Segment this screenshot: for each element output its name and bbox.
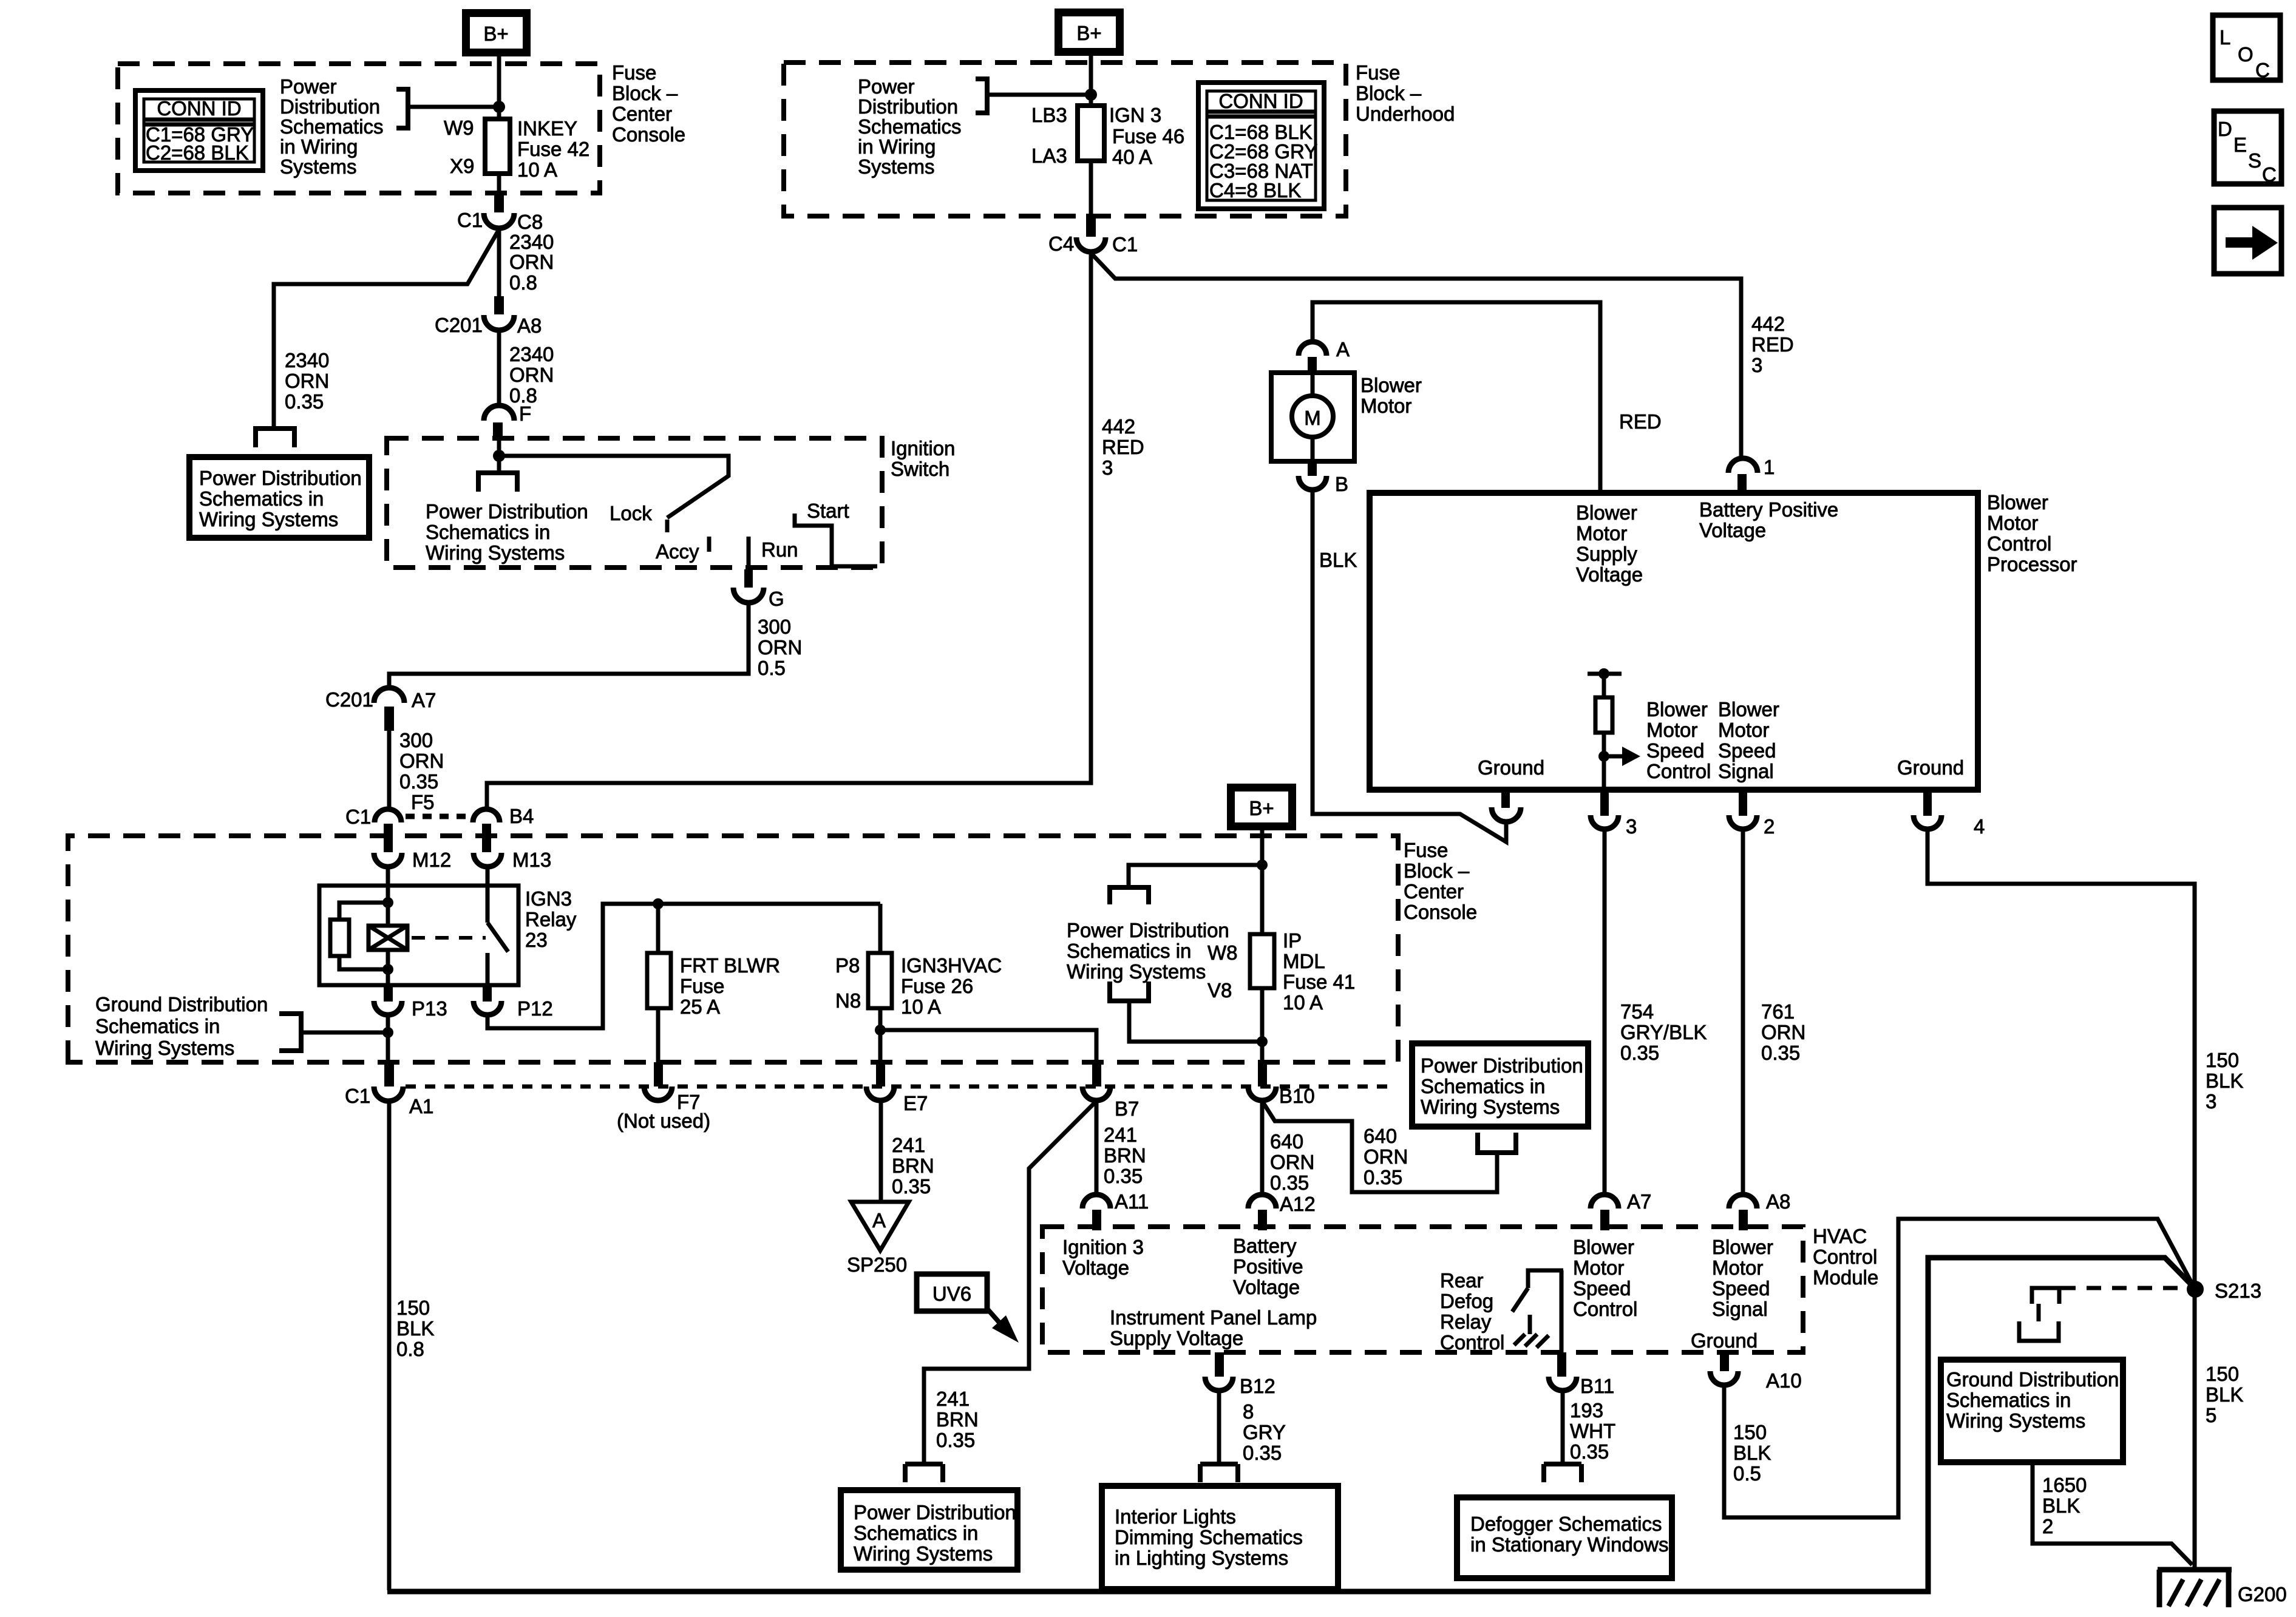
wire B+ to fuse 42 <box>497 56 501 119</box>
svg-text:S: S <box>2248 149 2261 172</box>
svg-text:ORN: ORN <box>1270 1151 1314 1173</box>
wire 640 ORN 0.35 branch (B10 to power distribution note) <box>1262 1101 1497 1192</box>
svg-text:3: 3 <box>1102 456 1113 479</box>
processor pin 3 <box>1600 790 1609 816</box>
svg-text:IGN 3: IGN 3 <box>1109 104 1161 126</box>
svg-text:2: 2 <box>1764 815 1775 838</box>
svg-text:300: 300 <box>758 615 791 638</box>
svg-text:N8: N8 <box>835 989 861 1012</box>
svg-text:in Stationary Windows: in Stationary Windows <box>1470 1533 1668 1556</box>
svg-text:BLK: BLK <box>1733 1442 1771 1464</box>
svg-text:4: 4 <box>1974 815 1985 838</box>
svg-text:Defogger Schematics: Defogger Schematics <box>1470 1513 1662 1535</box>
connector P13 <box>384 984 393 1002</box>
wire pin 4 to S213 (150 BLK 3) <box>1927 829 2195 1568</box>
node on IGN3 feed <box>1085 89 1097 101</box>
note box interior lights dimming <box>1102 1486 1338 1589</box>
svg-text:Schematics: Schematics <box>858 115 962 138</box>
svg-text:0.8: 0.8 <box>509 271 537 294</box>
svg-text:Wiring Systems: Wiring Systems <box>1946 1409 2085 1432</box>
svg-text:GRY: GRY <box>1243 1421 1286 1443</box>
svg-text:0.35: 0.35 <box>1243 1442 1282 1464</box>
svg-text:Control: Control <box>1813 1246 1877 1268</box>
relay actuation dashed link <box>412 936 486 940</box>
svg-text:Motor: Motor <box>1718 719 1769 741</box>
pin tick at C4/C1 <box>1086 214 1096 237</box>
svg-text:Signal: Signal <box>1712 1298 1768 1320</box>
wire defog to B11 <box>1560 1270 1564 1354</box>
svg-text:640: 640 <box>1364 1125 1397 1147</box>
svg-text:0.35: 0.35 <box>1761 1042 1800 1064</box>
wire 193 WHT 0.35 <box>1561 1391 1565 1464</box>
svg-text:0.35: 0.35 <box>285 390 324 413</box>
svg-text:Ground: Ground <box>1691 1329 1758 1352</box>
node ignition feed <box>493 450 505 462</box>
connector B7 <box>1092 1065 1101 1086</box>
svg-text:WHT: WHT <box>1570 1420 1615 1442</box>
connector A7 HVAC <box>1591 1195 1618 1209</box>
svg-text:Power Distribution: Power Distribution <box>1067 919 1229 941</box>
svg-text:GRY/BLK: GRY/BLK <box>1620 1021 1707 1043</box>
ground bus wire to S213 <box>387 1258 2193 1592</box>
svg-text:Console: Console <box>612 123 685 146</box>
svg-text:10 A: 10 A <box>901 995 941 1018</box>
relay switch contact <box>486 886 490 923</box>
svg-text:Rear: Rear <box>1440 1269 1484 1292</box>
svg-text:241: 241 <box>892 1134 925 1156</box>
svg-text:Motor: Motor <box>1646 719 1697 741</box>
connector B11 <box>1557 1352 1566 1377</box>
svg-text:Schematics in: Schematics in <box>199 487 324 510</box>
svg-text:0.35: 0.35 <box>1620 1042 1659 1064</box>
svg-text:FRT BLWR: FRT BLWR <box>680 954 780 977</box>
svg-text:A12: A12 <box>1280 1193 1316 1215</box>
connector pin 1 of processor <box>1728 458 1758 473</box>
off-page terminator bracket <box>256 429 294 447</box>
svg-text:ORN: ORN <box>509 364 554 386</box>
svg-text:Lock: Lock <box>610 502 652 524</box>
connector C1/C8 pin tick <box>494 194 504 212</box>
svg-text:Control: Control <box>1646 760 1711 782</box>
wire 754 GRY/BLK 0.35 (pin 3 to A7) <box>1603 829 1607 1194</box>
svg-text:Blower: Blower <box>1360 374 1422 396</box>
connector E7 <box>876 1062 885 1086</box>
svg-text:Supply Voltage: Supply Voltage <box>1110 1327 1243 1349</box>
connector M13 <box>474 853 501 867</box>
connector A12 <box>1248 1195 1276 1209</box>
svg-text:IGN3HVAC: IGN3HVAC <box>901 954 1002 977</box>
pin tick below F <box>493 422 503 441</box>
svg-text:0.35: 0.35 <box>399 770 438 793</box>
connector F (ignition switch) <box>484 405 514 421</box>
svg-text:Wiring Systems: Wiring Systems <box>1421 1096 1560 1118</box>
svg-text:(Not used): (Not used) <box>617 1110 710 1132</box>
svg-text:RED: RED <box>1751 333 1794 356</box>
svg-text:Motor: Motor <box>1576 522 1627 544</box>
svg-text:0.35: 0.35 <box>1270 1171 1309 1194</box>
svg-text:BLK: BLK <box>2206 1070 2243 1092</box>
LOC legend box <box>2213 15 2280 80</box>
connector A blower motor <box>1299 342 1326 356</box>
svg-text:SP250: SP250 <box>847 1253 907 1276</box>
note box defogger schematics <box>1457 1497 1672 1578</box>
svg-text:IP: IP <box>1283 929 1302 952</box>
svg-text:Motor: Motor <box>1712 1256 1763 1279</box>
connector B blower motor <box>1308 460 1317 476</box>
svg-text:Instrument Panel Lamp: Instrument Panel Lamp <box>1110 1306 1317 1329</box>
svg-text:Distribution: Distribution <box>858 95 958 118</box>
svg-text:RED: RED <box>1619 410 1662 433</box>
ignition switch dashed box <box>387 438 882 568</box>
ignition switch feed wire and blade <box>499 456 729 518</box>
connector G <box>733 588 764 603</box>
CONN ID table (center console) <box>135 90 263 171</box>
svg-text:5: 5 <box>2206 1404 2216 1426</box>
splice S213 <box>2187 1281 2204 1298</box>
svg-text:Fuse: Fuse <box>680 975 724 997</box>
wire 442 RED 3 branch to blower motor control processor <box>1092 254 1741 456</box>
Lock contact <box>665 520 670 532</box>
svg-text:Speed: Speed <box>1646 739 1704 762</box>
fuse block underhood dashed box <box>784 63 1346 216</box>
svg-text:ORN: ORN <box>1364 1145 1408 1168</box>
svg-text:Ground: Ground <box>1897 756 1964 779</box>
svg-text:B12: B12 <box>1240 1375 1275 1397</box>
svg-text:S213: S213 <box>2215 1280 2261 1302</box>
svg-text:ORN: ORN <box>399 750 444 772</box>
svg-text:B+: B+ <box>1076 22 1101 44</box>
svg-text:241: 241 <box>1104 1124 1137 1146</box>
connector C1/A1 <box>384 1062 394 1086</box>
svg-text:Battery: Battery <box>1233 1235 1297 1257</box>
svg-text:2340: 2340 <box>509 231 554 253</box>
wire fuse 41 to B10 <box>1260 988 1265 1063</box>
svg-text:D: D <box>2218 118 2232 140</box>
svg-text:3: 3 <box>1751 354 1762 376</box>
svg-text:150: 150 <box>1733 1421 1767 1443</box>
svg-text:Control: Control <box>1987 532 2051 555</box>
svg-text:Wiring Systems: Wiring Systems <box>199 508 338 531</box>
bracket to ground distribution note <box>279 1014 301 1051</box>
svg-text:10 A: 10 A <box>1283 991 1323 1014</box>
svg-text:A8: A8 <box>1766 1190 1790 1213</box>
bracket above power distribution box <box>905 1464 943 1482</box>
svg-text:C1: C1 <box>345 1085 370 1107</box>
relay coil symbol <box>369 926 407 950</box>
svg-text:Schematics in: Schematics in <box>854 1522 978 1544</box>
svg-text:C1: C1 <box>457 209 483 231</box>
svg-text:754: 754 <box>1620 1000 1654 1023</box>
svg-text:Start: Start <box>807 500 849 522</box>
UV6 arrow <box>987 1309 1000 1324</box>
svg-text:Relay: Relay <box>1440 1310 1492 1333</box>
svg-text:Run: Run <box>761 538 798 561</box>
dashed branch S213 to ground distribution note <box>2061 1286 2183 1290</box>
svg-text:0.35: 0.35 <box>892 1175 931 1198</box>
wire fuse 42 to C1/C8 <box>497 174 501 195</box>
bracket above defogger box <box>1544 1464 1581 1482</box>
svg-text:BLK: BLK <box>396 1317 434 1340</box>
connector M12 <box>374 853 402 867</box>
svg-text:A10: A10 <box>1766 1369 1802 1392</box>
connector A10 <box>1720 1352 1729 1371</box>
svg-text:8: 8 <box>1243 1400 1254 1423</box>
forward arrow legend box <box>2214 208 2281 274</box>
svg-text:Fuse: Fuse <box>1404 839 1448 861</box>
svg-text:A8: A8 <box>517 314 542 337</box>
svg-text:Battery Positive: Battery Positive <box>1699 498 1838 521</box>
rear defog relay contact <box>1528 1270 1563 1288</box>
svg-text:ORN: ORN <box>509 251 554 273</box>
wire 241 BRN 0.35 (E7 to SP250) <box>879 1100 883 1202</box>
svg-text:Wiring Systems: Wiring Systems <box>1067 960 1206 983</box>
connector C201/A8 pin tick <box>494 296 504 314</box>
svg-text:C1: C1 <box>1112 233 1138 256</box>
svg-text:Distribution: Distribution <box>280 95 380 118</box>
svg-text:0.35: 0.35 <box>1364 1166 1402 1188</box>
svg-text:Systems: Systems <box>858 155 935 178</box>
svg-text:F5: F5 <box>411 791 435 813</box>
Run contact <box>747 537 751 569</box>
svg-text:2340: 2340 <box>509 343 554 365</box>
svg-text:C: C <box>2255 59 2270 81</box>
relay coil branch <box>386 886 390 926</box>
svg-text:UV6: UV6 <box>932 1283 971 1305</box>
svg-text:Blower: Blower <box>1576 501 1637 524</box>
svg-text:B4: B4 <box>509 805 534 827</box>
pin tick at G <box>744 569 753 588</box>
svg-text:A7: A7 <box>1627 1190 1651 1213</box>
svg-text:241: 241 <box>936 1388 970 1410</box>
svg-text:Speed: Speed <box>1573 1277 1631 1300</box>
svg-text:A: A <box>1336 338 1350 361</box>
svg-text:Defog: Defog <box>1440 1290 1493 1312</box>
svg-text:Voltage: Voltage <box>1576 563 1643 586</box>
connector P12 <box>483 984 492 1002</box>
svg-text:0.35: 0.35 <box>1104 1165 1143 1187</box>
svg-text:Schematics: Schematics <box>280 115 384 138</box>
svg-text:A11: A11 <box>1115 1190 1149 1213</box>
svg-text:Underhood: Underhood <box>1356 103 1455 125</box>
svg-text:Systems: Systems <box>280 155 357 178</box>
svg-text:Positive: Positive <box>1233 1255 1303 1278</box>
svg-text:B: B <box>1335 473 1348 495</box>
IGN3 relay 23 box <box>319 886 518 985</box>
svg-text:C201: C201 <box>325 688 373 711</box>
fuse 46 IGN 3 <box>1078 106 1104 161</box>
bracket to note <box>396 89 408 128</box>
svg-text:2340: 2340 <box>285 349 329 371</box>
svg-text:Ground: Ground <box>1478 756 1544 779</box>
svg-text:Power Distribution: Power Distribution <box>199 467 362 489</box>
B+ terminal (underhood) <box>1059 13 1120 52</box>
svg-text:Schematics in: Schematics in <box>1421 1075 1545 1097</box>
svg-text:0.35: 0.35 <box>1570 1440 1609 1463</box>
svg-text:150: 150 <box>2206 1049 2239 1071</box>
big fuse block center console dashed box <box>68 836 1398 1062</box>
svg-text:0.5: 0.5 <box>1733 1462 1761 1485</box>
blower motor supply loop wire <box>1313 302 1600 493</box>
wire 2340 ORN 0.8 (A8 to F) <box>497 330 501 405</box>
B+ terminal (top left, fuse block center console) <box>466 13 527 53</box>
svg-text:Dimming Schematics: Dimming Schematics <box>1115 1526 1303 1548</box>
wire fuse 46 to C4/C1 <box>1089 161 1093 215</box>
connector C1/F5 <box>375 809 401 822</box>
svg-text:Wiring Systems: Wiring Systems <box>426 541 565 564</box>
splice SP250 <box>851 1202 909 1250</box>
svg-text:G200: G200 <box>2238 1583 2287 1605</box>
connector C4/C1 <box>1076 237 1106 252</box>
svg-text:Schematics in: Schematics in <box>95 1015 220 1037</box>
processor pin 4 <box>1923 790 1932 816</box>
svg-text:X9: X9 <box>450 155 474 177</box>
branch wire to power distribution note box <box>274 229 499 427</box>
svg-text:C1: C1 <box>345 805 371 828</box>
svg-text:25 A: 25 A <box>680 995 720 1018</box>
bracket to note <box>976 79 987 113</box>
svg-text:BRN: BRN <box>936 1408 979 1431</box>
svg-text:INKEY: INKEY <box>517 117 577 140</box>
note box power distribution schematics (bottom) <box>841 1490 1017 1570</box>
svg-text:CONN ID: CONN ID <box>1218 90 1303 112</box>
svg-text:Supply: Supply <box>1576 543 1637 565</box>
svg-text:2: 2 <box>2042 1515 2053 1537</box>
svg-text:Ground Distribution: Ground Distribution <box>95 993 268 1015</box>
svg-text:ORN: ORN <box>758 636 802 659</box>
blower motor control processor box <box>1370 493 1978 790</box>
svg-text:M: M <box>1304 407 1321 429</box>
svg-text:10 A: 10 A <box>517 158 557 181</box>
connector B12 <box>1215 1352 1224 1377</box>
svg-text:Accy: Accy <box>656 540 699 563</box>
svg-text:Blower: Blower <box>1718 698 1779 720</box>
svg-text:W8: W8 <box>1207 941 1238 964</box>
svg-text:IGN3: IGN3 <box>525 887 572 910</box>
wire B+ to IP MDL fuse <box>1260 830 1265 934</box>
CONN ID table (underhood) <box>1198 83 1324 209</box>
pin tick below A7 <box>384 707 394 731</box>
svg-text:Fuse: Fuse <box>1356 61 1400 84</box>
svg-text:A: A <box>872 1209 886 1232</box>
wire 150 BLK 0.5 (A10 ground to S213) <box>1724 1219 2193 1517</box>
blower motor box <box>1271 373 1354 461</box>
svg-text:LA3: LA3 <box>1031 144 1067 167</box>
svg-text:Motor: Motor <box>1573 1256 1624 1279</box>
svg-text:Power Distribution: Power Distribution <box>1421 1054 1583 1077</box>
svg-text:G: G <box>769 588 784 610</box>
svg-text:Voltage: Voltage <box>1062 1256 1129 1279</box>
svg-text:Center: Center <box>1404 880 1464 903</box>
svg-text:C: C <box>2262 163 2277 186</box>
svg-text:23: 23 <box>525 929 548 951</box>
svg-text:Speed: Speed <box>1712 1277 1770 1300</box>
svg-text:Control: Control <box>1440 1331 1504 1354</box>
HVAC control module dashed box <box>1042 1227 1803 1352</box>
svg-text:Module: Module <box>1813 1266 1878 1289</box>
svg-text:150: 150 <box>396 1297 430 1319</box>
wire 150 BLK 0.8 (A1 to ground bus) <box>387 1100 392 1590</box>
svg-text:Fuse 42: Fuse 42 <box>517 138 589 160</box>
svg-text:HVAC: HVAC <box>1813 1225 1867 1247</box>
svg-text:Motor: Motor <box>1987 512 2038 534</box>
svg-text:1650: 1650 <box>2042 1474 2087 1496</box>
svg-text:Fuse: Fuse <box>612 61 656 84</box>
svg-text:761: 761 <box>1761 1000 1795 1023</box>
bracket above interior lights box <box>1200 1464 1238 1482</box>
svg-text:Relay: Relay <box>525 908 577 931</box>
svg-text:Schematics in: Schematics in <box>1067 940 1191 962</box>
svg-text:Center: Center <box>612 103 672 125</box>
svg-text:C4: C4 <box>1048 232 1074 255</box>
internal speed control resistor <box>1588 672 1622 676</box>
wire 241 BRN 0.35 branch (B7 to power distribution) <box>924 1101 1096 1464</box>
svg-text:Signal: Signal <box>1718 760 1774 782</box>
svg-text:442: 442 <box>1751 313 1785 335</box>
wire B+ to fuse 46 <box>1089 56 1093 106</box>
B+ terminal (center console, IP MDL) <box>1231 788 1292 827</box>
note box power distribution schematics (right) <box>1412 1043 1588 1127</box>
svg-text:Ground Distribution: Ground Distribution <box>1946 1368 2119 1391</box>
svg-text:Control: Control <box>1573 1298 1637 1320</box>
svg-text:ORN: ORN <box>285 370 329 392</box>
svg-text:Switch: Switch <box>891 458 949 480</box>
svg-text:Fuse 26: Fuse 26 <box>901 975 973 997</box>
node on INKEY feed <box>493 101 505 113</box>
svg-text:Blower: Blower <box>1646 698 1708 720</box>
svg-text:Schematics in: Schematics in <box>426 521 550 543</box>
wire P13 down with ground distribution branch <box>386 1015 390 1063</box>
svg-text:40 A: 40 A <box>1112 146 1152 168</box>
svg-text:0.5: 0.5 <box>758 657 786 679</box>
connector F7 (not used) <box>654 1062 663 1086</box>
svg-text:A7: A7 <box>412 689 436 711</box>
svg-text:Processor: Processor <box>1987 553 2077 575</box>
svg-text:Wiring Systems: Wiring Systems <box>95 1037 234 1059</box>
wire P12 to fuses feed <box>487 904 880 1028</box>
Accy contact <box>707 537 712 552</box>
svg-text:ORN: ORN <box>1761 1021 1805 1043</box>
svg-text:Interior Lights: Interior Lights <box>1115 1505 1236 1528</box>
svg-text:Power: Power <box>858 75 915 98</box>
svg-text:BLK: BLK <box>1319 549 1357 571</box>
dashed connector row link <box>406 814 471 819</box>
svg-text:Voltage: Voltage <box>1233 1276 1300 1298</box>
svg-text:P8: P8 <box>835 954 860 977</box>
svg-text:in Lighting Systems: in Lighting Systems <box>1115 1547 1288 1569</box>
svg-text:BLK: BLK <box>2042 1494 2080 1517</box>
wire 300 ORN 0.35 (A7 to C1/F5) <box>387 731 392 810</box>
DESC legend box <box>2214 111 2281 184</box>
svg-text:B7: B7 <box>1115 1097 1139 1120</box>
pin tick below F5 <box>384 824 393 852</box>
svg-text:O: O <box>2238 43 2254 66</box>
svg-text:BLK: BLK <box>2206 1383 2243 1406</box>
wire 761 ORN 0.35 (pin 2 to A8) <box>1741 829 1745 1194</box>
wire F to junction <box>497 438 501 456</box>
svg-text:Block –: Block – <box>1356 82 1422 104</box>
svg-text:Power Distribution: Power Distribution <box>854 1501 1016 1524</box>
fuse 42 INKEY <box>485 119 510 174</box>
note box ground distribution schematics (right) <box>1941 1360 2123 1462</box>
svg-text:in Wiring: in Wiring <box>280 135 358 158</box>
connector row dotted line <box>406 1085 1396 1089</box>
svg-text:in Wiring: in Wiring <box>858 135 936 158</box>
svg-text:442: 442 <box>1102 415 1135 438</box>
svg-text:B10: B10 <box>1279 1085 1315 1107</box>
off-page bracket to power distribution note <box>497 456 501 472</box>
svg-text:Fuse 46: Fuse 46 <box>1112 125 1184 147</box>
svg-text:C4=8 BLK: C4=8 BLK <box>1209 179 1301 202</box>
